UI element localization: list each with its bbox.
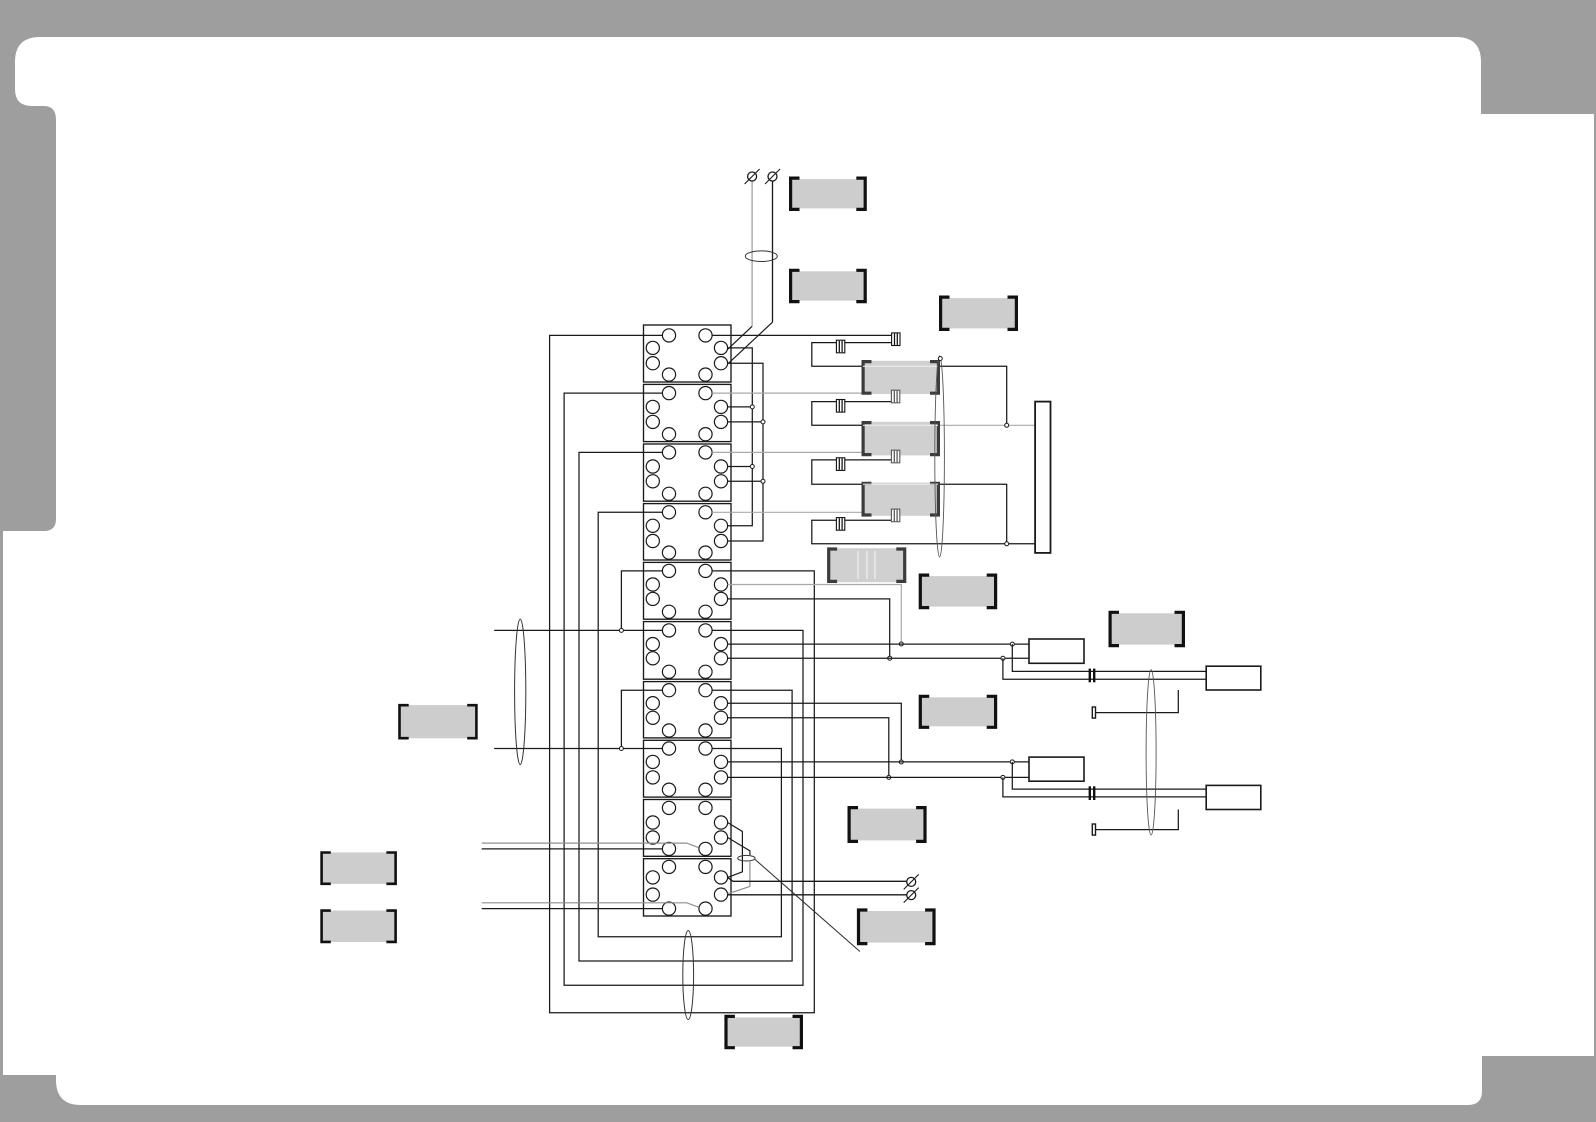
junction node bus1-a (750, 405, 754, 409)
connector B3 (891, 509, 899, 522)
connector C4 (836, 518, 844, 531)
connector C1 (836, 340, 844, 353)
earth symbol E1 (745, 169, 760, 184)
fan unit box FM2 (862, 422, 939, 456)
wire pair1 upper (gray) to block9-BR (482, 843, 699, 847)
fan unit box FM1 (862, 361, 939, 394)
wire loop from B1 (812, 402, 892, 426)
label box L2 (791, 270, 866, 301)
junction node J-F1 (619, 628, 623, 632)
plug box R4 (1206, 785, 1261, 809)
connector B2 (891, 450, 899, 463)
terminal block CN3 (644, 444, 732, 501)
terminal block CN6 (644, 622, 732, 680)
faint through-line FM1 (863, 365, 938, 367)
junction node J-F2 (619, 747, 623, 751)
jumper block9-RL to block10-RL upper (728, 838, 750, 856)
wire E2 diagonal to block1-RL (728, 322, 772, 363)
wire block2-RU tap (728, 406, 753, 408)
cable tie ellipse small (738, 855, 755, 861)
wire block6-RU to R1 (728, 643, 1029, 645)
wire block10-RU to earth E3 (728, 877, 907, 881)
junction node CC (1010, 760, 1014, 764)
terminal pin upper (1092, 707, 1095, 718)
bus bar (1035, 402, 1050, 553)
wire pair upper-2 (1003, 658, 1206, 679)
label box L8 (849, 808, 925, 842)
wire loop1 block1-TL to block5-TR (550, 335, 815, 1012)
wire loop from A1 (812, 343, 1007, 426)
junction node CB (1001, 656, 1005, 660)
earth symbol E4 (904, 888, 919, 903)
bus RL blocks1-4 (728, 363, 763, 541)
junction node bus2-a (761, 420, 765, 424)
junction node bus1-b (750, 465, 754, 469)
gray wire block4-TR to B3 (712, 511, 891, 513)
connector C2 (836, 400, 844, 413)
junction node bus2-b (761, 479, 765, 483)
label box L4 (920, 575, 995, 608)
label box L11 (859, 910, 935, 944)
wire block6-RL to R1 (728, 657, 1029, 659)
wire pair2 lower to block10-BL (482, 908, 663, 910)
wire riser to block7-TL (621, 690, 662, 748)
wire loop3 block3-TL to block7-TR (579, 452, 792, 961)
junction node CD (1001, 775, 1005, 779)
jumper block9-RU to block10-RU (728, 823, 743, 878)
earth symbol E2 (765, 169, 780, 184)
connector C3 (836, 458, 844, 471)
terminal pin lower (1092, 824, 1095, 835)
label box L10 (322, 911, 396, 943)
junction node J3 (899, 642, 903, 646)
wire block5-RL (728, 599, 890, 658)
junction node CA (1010, 642, 1014, 646)
wire block7-RU (728, 703, 902, 762)
terminal block CN2 (644, 384, 732, 441)
relay box R3 (1029, 757, 1084, 781)
cable ellipse left (515, 619, 526, 764)
switch box inner lines (858, 551, 875, 579)
gray wire to bar upper (938, 424, 1035, 426)
wire loop from B3 to bar (812, 520, 1035, 544)
label box L6 (399, 705, 476, 738)
wire R2 tail to terminal (1096, 690, 1179, 713)
terminal block CN1 (644, 325, 732, 382)
terminal block CN7 (644, 682, 732, 738)
label box L1 (791, 178, 866, 209)
label box L5 (1110, 612, 1183, 645)
wire block1-TR to connector A1 (712, 334, 892, 336)
gray wire block5-RU (728, 585, 902, 645)
wire block2-RL tap (728, 421, 763, 423)
relay box R1 (1029, 639, 1084, 663)
junction node J2 (1005, 542, 1009, 546)
wire pair upper-1 (1012, 644, 1206, 671)
junction node fan-top (938, 357, 942, 361)
wire feed F1 to block6-TL (494, 629, 662, 631)
wire R4 tail to terminal (1096, 810, 1179, 830)
junction node J1 (1005, 423, 1009, 427)
wire pair lower-2 (1003, 777, 1206, 797)
wire block10-RL to earth E4 (728, 894, 907, 896)
inline connector bars lower (1090, 786, 1094, 800)
plug box R2 (1206, 666, 1261, 690)
wire block3-RU tap (728, 466, 753, 468)
cable ellipse right (1146, 670, 1156, 835)
gray wire block2-TR to B1 (712, 392, 891, 394)
terminal block CN9 (644, 800, 732, 857)
wire feed F2 to block8-TL (494, 748, 662, 750)
label box L7 (920, 696, 995, 727)
wire block3-RL tap (728, 480, 763, 482)
wire from E2 drop (772, 182, 774, 323)
fan unit box FM3 (862, 483, 939, 516)
junction node J4 (888, 656, 892, 660)
wire block8-RL to R3 (728, 776, 1029, 778)
wire E1 diagonal to block1-RU (728, 326, 752, 349)
wire loop from B2 (812, 460, 1007, 544)
terminal block CN4 (644, 504, 732, 560)
wire loop4 block4-TL to block8-TR (598, 512, 781, 937)
wire loop2 block2-TL to block6-TR (564, 393, 803, 985)
terminal block CN8 (644, 740, 732, 797)
junction node J5 (899, 760, 903, 764)
wire pair1 lower to block9-BL (482, 848, 663, 850)
gray wire block3-TR to B2 (712, 451, 891, 453)
wire pair lower-1 (1012, 762, 1206, 789)
wire pair2 upper (gray) to block10-BR (482, 903, 699, 907)
cable tie ellipse top (745, 251, 777, 262)
cable ellipse bottom (683, 931, 694, 1020)
faint through-line FM3 (863, 483, 938, 485)
wire block7-RL (728, 718, 889, 778)
terminal block CN10 (644, 859, 732, 916)
label box L3 (941, 297, 1017, 329)
label box L12 (726, 1016, 801, 1047)
terminal block CN5 (644, 562, 732, 619)
wire from E1 (gray drop) (751, 182, 753, 327)
inline connector bars upper (1090, 669, 1094, 683)
connector A1 (892, 333, 900, 346)
connector B1 (891, 390, 899, 403)
bus RU blocks1-4 (728, 348, 753, 526)
wire block8-RU to R3 (728, 761, 1029, 763)
jumper block9-RL to block10-RL lower (728, 862, 750, 894)
label box L9 (322, 852, 396, 884)
cable ellipse fans (935, 356, 945, 557)
wire riser to block5-TL (621, 571, 662, 631)
faint through-line FM2 (863, 424, 938, 426)
leader line (755, 860, 860, 952)
switch box SW (828, 548, 906, 582)
earth symbol E3 (904, 874, 919, 889)
junction node J6 (887, 775, 891, 779)
